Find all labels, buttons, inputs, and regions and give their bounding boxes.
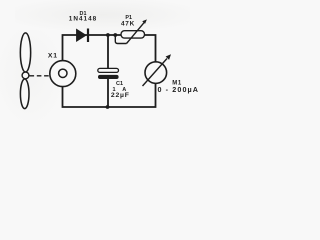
svg-text:0 - 200µA: 0 - 200µA <box>157 85 199 94</box>
svg-text:1N4148: 1N4148 <box>69 16 97 23</box>
svg-text:X1: X1 <box>48 53 58 60</box>
svg-text:47K: 47K <box>121 20 135 27</box>
svg-text:22µF: 22µF <box>111 92 130 99</box>
